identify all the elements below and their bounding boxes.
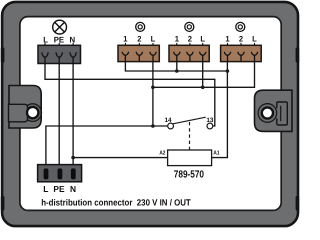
clamp forks [42, 52, 77, 63]
indicator circle above X2 [136, 22, 145, 31]
relay contact lever [173, 117, 206, 124]
node: bus3 left junction [151, 86, 155, 90]
wire: bus1 switched line from X2 pin 1 [125, 61, 227, 71]
slot L [44, 168, 49, 179]
relay contact terminal 14 [168, 123, 174, 129]
label N [70, 184, 76, 194]
label L [43, 184, 49, 194]
wire: X4 pin 1 down to coil A1 [212, 61, 228, 158]
lamp symbol [53, 20, 67, 34]
wire: X3 pin L drop to bus3 [202, 61, 204, 87]
svg-text:1: 1 [225, 35, 230, 44]
svg-text:h-distribution connector 230: h-distribution connector 230 V IN / OUT [41, 198, 191, 208]
svg-text:13: 13 [206, 117, 214, 124]
wire: connector X2 pin L down to L node [152, 61, 154, 126]
wire: N lamp to input [72, 63, 74, 170]
wire: bus3 L-line to X3 and X4 pin L [153, 61, 255, 87]
connector X1 (lamp output L PE N) [38, 35, 81, 63]
indicator circle above X4 [236, 22, 245, 31]
wire: coil A2 to N [73, 157, 168, 159]
wire: PE lamp to input [58, 63, 60, 170]
node: A2/N junction [71, 156, 75, 160]
mounting tab right bottom [296, 196, 300, 211]
terminal ticks [45, 43, 73, 45]
wire: input L up to switch contact 14 [46, 126, 168, 170]
connector X4 (switch 1 2 L) [221, 35, 262, 62]
svg-text:2: 2 [239, 35, 244, 44]
left mounting ear [9, 86, 42, 129]
svg-text:2: 2 [188, 35, 193, 44]
svg-text:A1: A1 [213, 151, 220, 157]
wire: X3 pin 1 drop to bus1 [176, 61, 178, 71]
title text [41, 198, 191, 208]
connector X3 (switch 1 2 L) [169, 35, 209, 62]
wire: lamp L to bus2 to switch contact 13 [45, 63, 215, 126]
svg-text:N: N [70, 184, 76, 194]
svg-text:1: 1 [123, 35, 128, 44]
pin label A1 [213, 151, 220, 157]
svg-text:N: N [69, 35, 75, 44]
node: X3 L / bus3 junction [201, 86, 205, 90]
svg-text:2: 2 [137, 35, 142, 44]
svg-text:1: 1 [175, 35, 180, 44]
slot N [71, 168, 76, 179]
svg-text:14: 14 [164, 117, 172, 124]
pin label A2 [159, 150, 165, 157]
svg-text:789-570: 789-570 [174, 169, 204, 180]
svg-text:L: L [200, 35, 205, 44]
node: X3 pin1 / bus1 junction [175, 69, 179, 73]
node: L / contact-14 junction [151, 124, 155, 128]
mounting tab left top [1, 48, 5, 63]
slot PE [58, 168, 63, 179]
right mounting ear [255, 90, 293, 131]
svg-text:PE: PE [53, 184, 64, 194]
connector X2 (switch 1 2 L) [118, 35, 159, 62]
mounting tab left bottom [1, 196, 5, 211]
svg-text:L: L [252, 35, 257, 44]
node: X4 pin1 / bus1 junction [226, 69, 230, 73]
relay coil U1 789-570 [168, 150, 212, 166]
mounting tab right top [296, 48, 300, 63]
label N [69, 35, 75, 44]
svg-text:L: L [43, 35, 48, 44]
relay contact terminal 13 [207, 123, 213, 129]
value label 789-570 [174, 169, 204, 180]
label PE [54, 35, 65, 44]
svg-text:L: L [43, 184, 49, 194]
connector X5 (mains input L PE N) [38, 165, 82, 194]
svg-text:A2: A2 [159, 150, 165, 157]
indicator circle above X3 [185, 22, 194, 31]
relay actuation dashed link [189, 122, 191, 150]
svg-text:L: L [151, 35, 156, 44]
label PE [53, 184, 64, 194]
label L [43, 35, 48, 44]
